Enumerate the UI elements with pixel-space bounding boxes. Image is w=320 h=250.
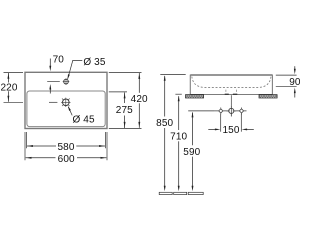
svg-text:220: 220 — [0, 83, 17, 94]
dimension 150 lines — [208, 128, 254, 130]
dimension 580 arrows — [27, 145, 104, 147]
drain connection circle — [227, 106, 237, 117]
svg-text:275: 275 — [116, 105, 133, 116]
dimension 220 lines — [7, 73, 9, 102]
dimension 600 arrows — [26, 157, 106, 159]
svg-text:90: 90 — [289, 77, 300, 88]
drain hole centermark cross and ticks — [61, 98, 70, 107]
washbasin outer rim (top view) — [25, 72, 107, 128]
dimension 590 extension line — [188, 110, 214, 112]
floor bar middle — [174, 192, 187, 194]
dimension 150 extension lines — [221, 114, 242, 132]
label Ø45 leader arrowhead — [68, 106, 71, 111]
dimension 590 lines — [192, 113, 194, 187]
dimension 275 arrows — [124, 93, 126, 128]
hidden drain outline lines — [226, 90, 237, 92]
dimension 420 extension lines — [109, 72, 142, 128]
dimension 70 lines — [49, 59, 51, 94]
dimension 710 extension line — [175, 93, 181, 95]
dimension 580 extension lines — [26, 132, 105, 148]
dimension 600 extension lines — [25, 132, 107, 160]
dimension 150 arrows — [215, 128, 247, 130]
dimension 70 arrows — [49, 66, 51, 90]
dimension 275 lines — [124, 93, 126, 129]
svg-text:70: 70 — [53, 54, 65, 65]
dimension 850 arrows — [164, 75, 166, 191]
svg-text:Ø 45: Ø 45 — [73, 115, 95, 126]
dimension 275 extension line — [109, 91, 127, 93]
dimension 600 lines — [26, 157, 107, 159]
drain flange marks — [225, 93, 238, 95]
supply connection diamond right — [239, 107, 243, 114]
mounting pad right (hatched) — [259, 95, 277, 98]
svg-text:150: 150 — [222, 125, 239, 136]
label Ø35 leader — [68, 60, 83, 79]
dimension 850 lines — [164, 76, 166, 186]
drain circle cross vertical — [230, 105, 232, 116]
dimension 590 arrows — [192, 112, 194, 191]
washbasin inner bowl (top view) — [27, 91, 105, 127]
faucet centerline — [47, 81, 60, 83]
hidden bowl outline dashed — [192, 77, 271, 88]
drain hole Ø45 circle — [63, 99, 70, 106]
dimension 850 extension line — [160, 74, 185, 76]
dimension 90 arrows — [294, 69, 296, 93]
faucet hole Ø35 circle — [64, 79, 69, 84]
svg-text:Ø 35: Ø 35 — [83, 57, 105, 68]
dimension 420 arrows — [138, 73, 140, 127]
dimension 580 lines — [27, 145, 105, 147]
dimension 710 lines — [178, 96, 180, 186]
svg-text:580: 580 — [57, 142, 74, 153]
drain centerline vertical — [230, 95, 232, 105]
supply connection diamond left — [219, 107, 223, 114]
mounting pad left (hatched) — [186, 95, 204, 98]
dimension 90 extension lines — [276, 75, 297, 87]
faucet hole centermark cross — [63, 78, 70, 85]
svg-text:710: 710 — [170, 132, 187, 143]
dimension 420 lines — [138, 73, 140, 128]
fittings centerline — [214, 110, 247, 112]
floor bar left — [159, 192, 172, 194]
svg-text:600: 600 — [58, 154, 75, 165]
floor bar right — [188, 192, 203, 194]
svg-text:420: 420 — [131, 94, 148, 105]
dimension 220 arrows — [7, 73, 9, 101]
label Ø35 leader arrowhead — [68, 74, 70, 79]
svg-text:850: 850 — [156, 118, 173, 129]
dimension 90 lines — [294, 66, 296, 97]
dimension 220 extension lines — [4, 72, 58, 102]
label Ø45 leader — [68, 107, 72, 116]
washbasin body (front view) — [190, 75, 272, 95]
dimension 710 arrows — [178, 96, 180, 192]
svg-text:590: 590 — [183, 147, 200, 158]
